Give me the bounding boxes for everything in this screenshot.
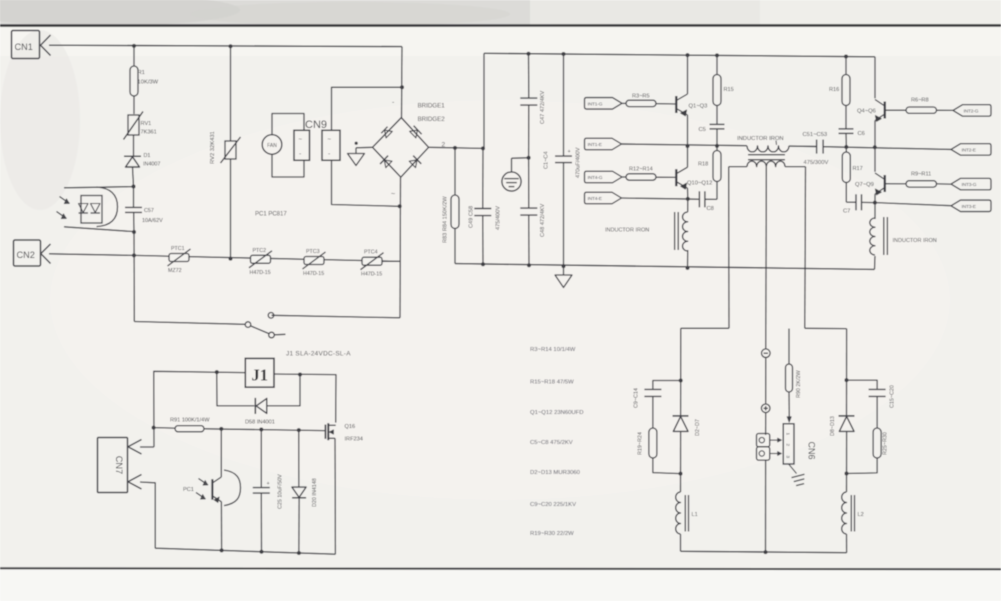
wire Q7 collector [874,147,876,172]
node C9 branch top [679,379,683,383]
svg-text:C47 472/4KV: C47 472/4KV [540,90,546,124]
wire CN7 pin2 [140,482,155,548]
svg-text:R83 R84 150K/2W: R83 R84 150K/2W [443,196,449,243]
svg-text:BRIDGE2: BRIDGE2 [418,116,446,123]
capacitor C49 C58 [482,148,484,208]
svg-text:PTC4: PTC4 [364,250,378,256]
svg-text:CN6: CN6 [807,442,817,460]
svg-text:INT4-G: INT4-G [588,175,603,181]
svg-text:R3~R5: R3~R5 [632,94,650,100]
svg-text:J1 SLA-24VDC-SL-A: J1 SLA-24VDC-SL-A [286,351,351,358]
node CN9 return junction [398,204,402,208]
svg-text:Q7~Q9: Q7~Q9 [855,182,874,188]
svg-text:J1: J1 [252,366,269,385]
diode D1 IN4007 [124,155,141,157]
resistor R6~R8 [906,107,937,113]
wire Q7 base to R9-R11 [886,183,906,185]
wire to CN2 level and switch [133,232,135,322]
resistor R3~R5 [626,100,656,106]
svg-text:PC1: PC1 [183,487,194,493]
svg-text:R15~R18 47/5W: R15~R18 47/5W [530,380,574,386]
svg-text:Q1~Q12 23N60UFD: Q1~Q12 23N60UFD [530,410,584,416]
resistor R19~R24 [652,396,654,428]
wire R25 bottom [847,458,878,474]
mid emitter rail INT1-E [622,144,748,146]
svg-text:PTC2: PTC2 [253,248,267,254]
svg-text:RV1: RV1 [141,121,152,127]
svg-text:IN4007: IN4007 [143,162,160,168]
wire L1 to output bottom rail [680,534,682,551]
output bottom rail [681,551,847,552]
diode D8~D13 [839,415,855,417]
wire INT4-E [622,198,699,199]
svg-text:CN2: CN2 [17,250,35,260]
node RV2 bottom [229,257,233,261]
wire plus terminal to CN6 leads [765,413,767,435]
svg-text:2: 2 [785,444,790,447]
wire CN7 pin1 [140,446,154,448]
svg-text:Q4~Q6: Q4~Q6 [857,109,876,115]
right output rail upper [846,329,848,416]
capacitor C7 [846,201,856,203]
tag INT3-G [951,178,991,190]
wire right coil to return rail [874,256,877,269]
inductor L2 [842,492,847,534]
varistor RV2 32K431 [230,46,232,141]
capacitor C8 [698,191,700,207]
capacitor C51~C53 [816,140,818,154]
svg-text:R19~R30 22/2W: R19~R30 22/2W [530,531,574,537]
wire bridge top vertical [401,47,404,118]
svg-text:R90 2K/2W: R90 2K/2W [796,370,802,398]
svg-text:~: ~ [328,137,332,143]
transistor Q1~Q3 [675,96,677,113]
wire PC1 emitter down [220,502,222,551]
wire top rail corner to Q4 collector [874,57,876,99]
transistor Q4~Q6 [884,102,886,119]
node center tap bottom [764,550,768,554]
wire CN2 to PTC chain [49,254,134,256]
bottom border line [0,568,1001,569]
resistor R25~R30 [876,396,878,428]
svg-text:C5~C8 475/2KV: C5~C8 475/2KV [530,440,573,446]
wire aux rail top corner [154,371,246,447]
capacitor C48 472/4KV [528,158,530,208]
capacitor C15~C20 [847,380,878,389]
wire R17 bottom [845,183,847,203]
resistor R17 [845,147,847,152]
svg-text:R19~R24: R19~R24 [638,432,644,455]
wire fan top loop [272,114,304,135]
svg-text:C5: C5 [699,127,706,133]
resistor R12~R14 [626,174,656,180]
svg-text:10A/62V: 10A/62V [142,218,163,224]
svg-text:10K/3W: 10K/3W [138,80,159,86]
inductor iron (right primary) [874,203,876,219]
wire CN1 to bridge top corner [49,45,402,46]
svg-text:~: ~ [299,137,303,143]
diode D2~D7 [673,415,689,417]
svg-text:7K361: 7K361 [141,130,157,136]
earth ground symbol [512,157,529,159]
CN7 arrow pin2 [128,475,142,490]
node Q1 collector rail [686,53,690,57]
resistor R90 2K/2W [788,329,790,365]
capacitor C6 [845,106,847,129]
resistor R1 [133,46,135,66]
resistor R9~R11 [906,181,937,187]
light arrow 2 [57,212,67,219]
svg-text:D1: D1 [144,153,151,159]
wire coil to return rail [687,250,689,268]
relay contact switch [134,322,245,325]
svg-text:INT2-G: INT2-G [964,108,979,114]
bridge rectifier BRIDGE1/BRIDGE2 diamond [373,118,429,178]
svg-text:IRF234: IRF234 [345,437,363,443]
wire riser to top rail [483,53,485,148]
node PC1 collector [219,427,223,431]
wire Q1 emitter [687,115,689,146]
wire Q10 collector [687,146,689,167]
node Q7 emitter junction [873,201,877,205]
wire Q16 source down [334,438,336,554]
svg-text:C48 472/4KV: C48 472/4KV [540,203,546,237]
terminal plus [761,404,770,413]
node R16 top [844,55,848,59]
optocoupler PC1 transistor side [220,429,222,477]
node Q4 emitter junction [873,145,877,149]
svg-text:Q10~Q12: Q10~Q12 [687,181,712,187]
wire PTC4 to bridge-bottom vertical [382,260,401,262]
node D58 left top [215,370,219,374]
node C9 branch bottom [679,472,683,476]
svg-text:R16: R16 [829,87,839,93]
svg-text:C7: C7 [843,209,850,215]
node Q1 emitter junction [686,144,690,148]
varistor RV1 [128,115,139,135]
diode D20 IN4148 [298,430,300,487]
left output rail upper [680,328,682,415]
svg-text:D58 IN4001: D58 IN4001 [245,419,275,425]
node Q10 emitter junction [686,197,690,201]
diode D58 IN4001 [254,398,256,414]
node C5 bottom [715,144,719,148]
node C47 top [527,52,531,56]
svg-text:R9~R11: R9~R11 [911,172,931,178]
ground triangle on return rail [563,266,565,275]
inductor iron (left primary) [687,199,689,212]
svg-text:RV2 32K431: RV2 32K431 [210,131,216,164]
node D20 top [297,428,301,432]
optocoupler input side (PC1 LED pair) [64,187,134,188]
PC1 light arrow 1 [199,479,209,486]
svg-text:BRIDGE1: BRIDGE1 [418,103,446,110]
bridge diode top-left [381,127,392,138]
svg-text:C1~C4: C1~C4 [544,151,550,169]
svg-text:C9~C14: C9~C14 [634,388,640,408]
svg-text:D2~D13 MUR3060: D2~D13 MUR3060 [530,470,581,476]
svg-text:475/400V: 475/400V [496,206,502,230]
svg-text:INT2-E: INT2-E [962,147,976,153]
main return rail [455,264,875,270]
svg-text:R6~R8: R6~R8 [911,98,929,104]
CN9 socket 2 [322,130,340,160]
wire CN9 socket2 top [332,87,403,130]
wire R3-R5 to Q1 base [656,103,675,105]
bridge diode top-right [409,126,422,139]
transformer secondary winding [729,166,747,168]
wire R19 bottom [653,458,681,474]
fan FAN [262,135,282,155]
svg-text:INT3-E: INT3-E [962,204,976,210]
wire C8 to R18 [705,198,717,200]
wire relay contact to vertical [272,315,401,318]
transformer core [748,154,785,156]
wire tag to R12-R14 [622,176,626,178]
resistor R16 [845,57,847,75]
svg-text:H47D-15: H47D-15 [303,271,324,277]
svg-text:1: 1 [785,433,790,436]
wire J1 to Q16 drain [274,374,336,423]
connector CN2 [14,240,41,266]
wire choke to C51 [789,145,816,147]
terminal minus [762,349,771,358]
wire CN9 socket2 bottom return [332,160,400,206]
node C25 bottom [260,550,264,554]
svg-text:C6: C6 [858,131,865,137]
svg-text:R91 100K/1/4W: R91 100K/1/4W [170,418,210,424]
svg-text:R18: R18 [698,162,708,168]
node C49 top [481,146,485,150]
CN2 arrow [41,244,51,264]
svg-text:C15~C20: C15~C20 [890,385,896,408]
node R83 top [453,146,457,150]
svg-text:R17: R17 [853,166,863,172]
thermistor PTC3 H47D-15 [304,257,324,265]
node C49 bottom [481,262,485,266]
node C15 branch bottom [845,472,849,476]
wire R12-R14 to Q10 base [656,176,675,178]
wire secondary center tap [765,167,768,349]
svg-text:INDUCTOR IRON: INDUCTOR IRON [893,238,937,244]
wire CN6 leads to bottom rail [765,461,767,553]
light arrow 1 [60,197,70,204]
wire Q7 emitter [874,194,876,203]
node R15 top [715,53,719,57]
svg-text:L2: L2 [858,512,864,518]
svg-text:C57: C57 [144,208,154,214]
node RV2 top [229,44,233,48]
CN7 arrow pin1 [128,440,142,455]
LED 2 of PC1 [91,204,101,213]
connector CN6 [783,424,794,464]
tag INT2-G [953,105,991,117]
capacitor C9~C14 [653,381,681,389]
connector CN1 [12,31,40,59]
svg-text:Q16: Q16 [345,424,356,430]
resistor R18 [716,146,718,151]
left output rail lower [680,431,682,492]
top border line [0,24,1001,27]
node opto bottom [132,230,136,234]
node C1-C4 top [562,52,566,56]
svg-text:R1: R1 [138,70,145,76]
resistor R15 [716,55,718,74]
wire fan bottom loop [272,154,304,177]
resistor R91 100K/1/4W [154,427,175,430]
svg-text:CN9: CN9 [305,119,327,131]
inductor L1 [676,492,681,534]
node CN2 junction [132,253,136,257]
svg-text:D2~D7: D2~D7 [695,419,701,436]
wire R91 to Q16 gate [204,429,325,431]
wire R18 bottom to C8 [716,182,718,200]
wire secondary right lead jog [805,327,847,329]
mosfet Q16 IRF234 [324,425,326,439]
wire C51 to right block [824,147,951,150]
svg-text:C51~C53: C51~C53 [803,132,828,138]
svg-text:INT1-G: INT1-G [588,101,603,107]
CN6 lead terminal 2 [757,447,770,460]
node D20 bottom [297,551,301,555]
wire secondary right lead [804,167,807,329]
svg-text:+: + [568,149,571,155]
svg-text:H47D-15: H47D-15 [361,272,382,278]
wire INT3-E [875,203,951,206]
wire Q4 base to R6-R8 [886,109,906,111]
svg-text:475/300V: 475/300V [804,160,829,166]
node bridge top branch [400,85,404,89]
node earth branch [527,156,531,160]
svg-text:R15: R15 [724,87,734,93]
svg-text:3: 3 [785,456,790,459]
node C6 bottom [844,145,848,149]
svg-text:C25 10uF/50V: C25 10uF/50V [278,474,284,509]
thermistor PTC4 H47D-15 [362,257,382,265]
transistor Q7~Q9 [884,175,886,192]
capacitor C5 [716,106,718,124]
node C15 branch top [845,378,849,382]
svg-text:D8~D13: D8~D13 [830,416,836,436]
transistor Q10~Q12 [675,169,677,186]
svg-text:+: + [267,481,270,487]
svg-text:C9~C20 225/1KV: C9~C20 225/1KV [530,502,576,508]
bridge left ground wire [356,146,373,149]
svg-text:INT3-G: INT3-G [962,182,977,188]
wire D58 right branch [267,375,300,406]
LED 1 of PC1 [79,204,89,213]
thermistor PTC1 MZ72 [169,254,189,262]
svg-text:470uF/400V: 470uF/400V [576,147,582,178]
svg-text:D20 IN4148: D20 IN4148 [312,478,318,507]
svg-text:R25~R30: R25~R30 [883,432,889,455]
node R1 top [132,44,136,48]
svg-text:INT4-E: INT4-E [588,196,602,202]
tag INT3-E [951,200,991,212]
tag INT1-G [585,98,623,110]
wire L2 to output bottom rail [846,534,848,553]
svg-text:CN1: CN1 [15,42,33,52]
wire bridge output 2 [429,147,483,148]
svg-text:PTC3: PTC3 [306,249,320,255]
capacitor C25 10uF/50V [260,430,262,488]
node C48 bottom [527,263,531,267]
tag INT1-E [585,138,622,150]
svg-text:INT1-E: INT1-E [588,142,602,148]
bottom aux rail [155,548,335,554]
svg-text:FAN: FAN [267,143,277,149]
capacitor C47 472/4KV [528,54,530,98]
chassis ground at CN6 [789,464,797,474]
PTC chain wire [134,255,400,261]
tag INT4-G [585,171,623,183]
svg-text:MZ72: MZ72 [168,268,182,274]
bridge diode bottom-left [380,156,393,169]
wire bridge bottom down to relay contact level [399,178,402,318]
svg-text:H47D-15: H47D-15 [250,270,271,276]
wire secondary left lead jog [681,327,729,329]
svg-text:Q1~Q3: Q1~Q3 [689,104,708,110]
node R91 tap [152,426,156,430]
node D58 right top [298,373,302,377]
relay coil J1 box [245,358,274,387]
right output rail lower [846,431,848,492]
svg-text:~: ~ [391,191,395,198]
node C25 top [259,428,263,432]
PC1 light arrow 2 [196,493,206,500]
wire D58 left branch [217,372,255,406]
node inductor left bottom [686,266,690,270]
tag INT4-E [585,192,622,204]
svg-text:INDUCTOR IRON: INDUCTOR IRON [605,228,649,234]
svg-text:R12~R14: R12~R14 [629,167,653,173]
resistor R83 R84 150K/2W [454,148,456,195]
CN9 socket 1 [294,130,310,160]
svg-text:R3~R14 10/1/4W: R3~R14 10/1/4W [530,347,576,353]
wire R6-R8 to tag [937,109,954,111]
node PC1 emitter bottom [220,548,224,552]
node opto top [132,185,136,189]
capacitor C1-C4 470uF/400V [563,54,565,156]
wire center tap to plus terminal [765,358,767,405]
svg-text:CN7: CN7 [114,456,124,474]
CN6 lead terminal 1 [757,434,770,447]
thermistor PTC2 H47D-15 [251,255,271,263]
connector CN7 [98,438,128,493]
svg-text:PC1 PC817: PC1 PC817 [255,212,287,218]
wire secondary left lead [728,167,730,329]
tag INT2-E [951,144,991,156]
wire tag to R3-R5 [622,102,626,104]
wire Q10 emitter [687,188,689,199]
svg-text:L1: L1 [692,512,698,518]
CN1 arrow [41,35,51,56]
capacitor C57 [133,187,135,208]
svg-text:INDUCTOR IRON: INDUCTOR IRON [737,136,784,142]
svg-text:C49 C58: C49 C58 [469,206,475,228]
chassis ground at bridge [355,148,357,154]
bridge diode bottom-right [408,156,421,169]
inductor iron (series choke on emitter rail) [747,146,789,152]
svg-text:C8: C8 [707,206,714,212]
wire Q4 emitter [874,121,876,148]
label leader line [775,141,778,146]
node C1-C4 bottom [562,264,566,268]
wire Q1 collector [687,55,689,94]
svg-text:PTC1: PTC1 [171,246,185,252]
top DC rail [484,53,875,57]
wire R9-R11 to tag [937,183,952,185]
